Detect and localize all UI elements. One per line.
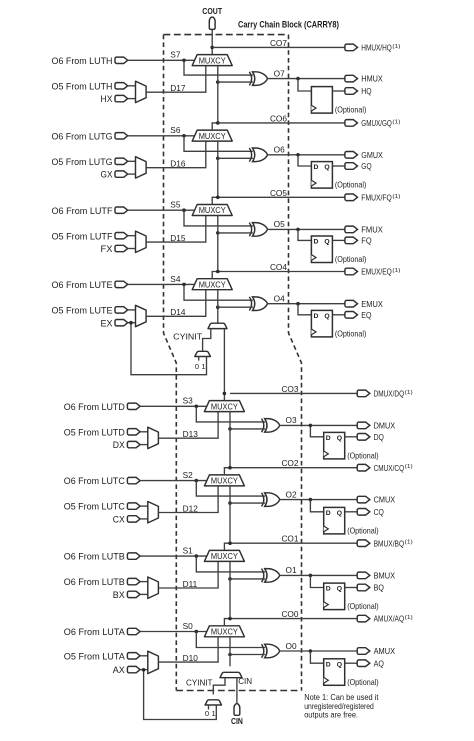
svg-text:MUXCY: MUXCY	[211, 628, 239, 637]
svg-text:CO2: CO2	[281, 458, 298, 468]
svg-text:S6: S6	[170, 125, 181, 135]
svg-text:FMUX/FQ: FMUX/FQ	[361, 192, 392, 202]
svg-text:(1): (1)	[392, 44, 400, 50]
svg-text:CIN: CIN	[238, 676, 252, 686]
svg-text:O6 From LUTB: O6 From LUTB	[64, 552, 125, 562]
svg-text:D: D	[314, 313, 319, 320]
svg-text:AQ: AQ	[374, 658, 384, 668]
svg-text:COUT: COUT	[202, 7, 222, 16]
svg-text:Q: Q	[324, 313, 329, 320]
svg-text:(1): (1)	[405, 615, 413, 621]
svg-text:CO3: CO3	[281, 384, 298, 394]
svg-text:O6 From LUTA: O6 From LUTA	[64, 627, 126, 637]
svg-text:GX: GX	[101, 170, 113, 180]
svg-text:S5: S5	[170, 200, 181, 210]
svg-text:HMUX: HMUX	[361, 74, 383, 84]
svg-text:1: 1	[212, 709, 216, 718]
svg-text:BX: BX	[113, 590, 125, 600]
svg-text:D10: D10	[183, 653, 199, 663]
svg-text:CO4: CO4	[270, 262, 287, 272]
svg-text:DMUX: DMUX	[374, 421, 396, 431]
svg-text:O5 From LUTD: O5 From LUTD	[64, 427, 125, 437]
svg-text:1: 1	[201, 362, 205, 371]
svg-text:EX: EX	[101, 318, 113, 328]
svg-text:EQ: EQ	[361, 310, 371, 320]
svg-text:CX: CX	[113, 515, 125, 525]
svg-text:(1): (1)	[405, 390, 413, 396]
svg-text:D: D	[326, 435, 331, 442]
svg-text:HMUX/HQ: HMUX/HQ	[361, 43, 392, 53]
svg-text:D11: D11	[183, 579, 198, 589]
svg-text:CO5: CO5	[270, 188, 287, 198]
svg-text:EMUX/EQ: EMUX/EQ	[361, 267, 392, 277]
svg-text:FQ: FQ	[361, 236, 371, 246]
svg-text:Q: Q	[324, 239, 329, 246]
svg-text:D17: D17	[170, 83, 186, 93]
svg-text:Q: Q	[337, 586, 342, 593]
svg-text:Q: Q	[337, 435, 342, 442]
svg-text:O5 From LUTE: O5 From LUTE	[52, 306, 113, 316]
svg-text:O6 From LUTC: O6 From LUTC	[64, 476, 125, 486]
svg-text:Q: Q	[337, 661, 342, 668]
svg-text:O6 From LUTE: O6 From LUTE	[52, 280, 113, 290]
svg-text:CMUX: CMUX	[374, 495, 396, 505]
svg-text:CO7: CO7	[270, 38, 287, 48]
svg-text:D13: D13	[183, 429, 199, 439]
svg-text:(Optional): (Optional)	[347, 677, 379, 687]
svg-text:Carry Chain Block (CARRY8): Carry Chain Block (CARRY8)	[238, 19, 339, 29]
svg-text:(Optional): (Optional)	[335, 254, 367, 264]
svg-text:CQ: CQ	[374, 507, 384, 517]
svg-text:BMUX: BMUX	[374, 571, 396, 581]
svg-text:AX: AX	[113, 665, 125, 675]
svg-text:DQ: DQ	[374, 432, 384, 442]
svg-text:D: D	[314, 239, 319, 246]
svg-text:(1): (1)	[392, 119, 400, 125]
svg-text:MUXCY: MUXCY	[199, 280, 227, 289]
svg-text:Note 1: Can be used it: Note 1: Can be used it	[304, 693, 379, 702]
svg-text:O7: O7	[274, 68, 285, 78]
svg-text:D14: D14	[170, 307, 186, 317]
svg-text:O3: O3	[286, 415, 297, 425]
svg-text:O5 From LUTF: O5 From LUTF	[52, 231, 113, 241]
svg-text:CO1: CO1	[281, 534, 298, 544]
svg-text:CMUX/CQ: CMUX/CQ	[374, 463, 405, 473]
svg-text:O6 From LUTG: O6 From LUTG	[52, 131, 113, 141]
svg-text:(Optional): (Optional)	[347, 601, 379, 611]
svg-text:S7: S7	[170, 50, 181, 60]
svg-text:CYINIT: CYINIT	[186, 677, 213, 687]
svg-text:DX: DX	[113, 440, 125, 450]
svg-text:0: 0	[195, 362, 199, 371]
svg-text:O5 From LUTC: O5 From LUTC	[64, 502, 125, 512]
svg-text:AMUX: AMUX	[374, 646, 396, 656]
svg-text:(Optional): (Optional)	[347, 525, 379, 535]
svg-text:outputs are free.: outputs are free.	[304, 710, 358, 719]
svg-text:D12: D12	[183, 503, 199, 513]
svg-text:GQ: GQ	[361, 161, 371, 171]
svg-text:Q: Q	[324, 164, 329, 171]
svg-text:EMUX: EMUX	[361, 299, 383, 309]
svg-text:D: D	[326, 586, 331, 593]
svg-text:O6: O6	[274, 145, 285, 155]
svg-text:MUXCY: MUXCY	[199, 206, 227, 215]
svg-text:Q: Q	[337, 510, 342, 517]
svg-text:O2: O2	[286, 489, 297, 499]
svg-text:O6 From LUTB: O6 From LUTB	[64, 577, 125, 587]
svg-text:D15: D15	[170, 233, 186, 243]
svg-text:MUXCY: MUXCY	[211, 402, 239, 411]
svg-text:HQ: HQ	[361, 86, 371, 96]
svg-text:BMUX/BQ: BMUX/BQ	[374, 538, 405, 548]
svg-text:O4: O4	[274, 294, 285, 304]
svg-text:(1): (1)	[405, 540, 413, 546]
svg-text:GMUX: GMUX	[361, 150, 383, 160]
svg-text:(Optional): (Optional)	[335, 105, 367, 115]
svg-text:MUXCY: MUXCY	[211, 477, 239, 486]
svg-text:DMUX/DQ: DMUX/DQ	[374, 389, 405, 399]
svg-text:(1): (1)	[405, 464, 413, 470]
svg-text:FMUX: FMUX	[361, 225, 383, 235]
svg-text:MUXCY: MUXCY	[211, 552, 239, 561]
svg-text:O5 From LUTH: O5 From LUTH	[52, 81, 113, 91]
svg-text:BQ: BQ	[374, 583, 384, 593]
svg-text:MUXCY: MUXCY	[199, 56, 227, 65]
svg-text:GMUX/GQ: GMUX/GQ	[361, 118, 392, 128]
svg-text:D16: D16	[170, 159, 186, 169]
svg-text:S4: S4	[170, 274, 181, 284]
svg-text:FX: FX	[101, 244, 113, 254]
svg-text:D: D	[314, 164, 319, 171]
svg-text:O6 From LUTF: O6 From LUTF	[52, 206, 113, 216]
svg-text:D: D	[326, 510, 331, 517]
svg-text:CO0: CO0	[281, 609, 298, 619]
svg-text:O5 From LUTG: O5 From LUTG	[52, 157, 113, 167]
svg-text:D: D	[326, 661, 331, 668]
svg-text:(Optional): (Optional)	[347, 450, 379, 460]
svg-text:(Optional): (Optional)	[335, 180, 367, 190]
svg-text:S2: S2	[183, 470, 194, 480]
svg-text:AMUX/AQ: AMUX/AQ	[374, 614, 405, 624]
svg-text:O6 From LUTH: O6 From LUTH	[52, 56, 113, 66]
svg-text:(1): (1)	[392, 268, 400, 274]
svg-text:HX: HX	[101, 94, 113, 104]
svg-text:O0: O0	[286, 641, 297, 651]
svg-text:CYINIT: CYINIT	[173, 332, 202, 342]
svg-text:CO6: CO6	[270, 113, 287, 123]
svg-text:0: 0	[205, 709, 209, 718]
svg-text:O6 From LUTD: O6 From LUTD	[64, 402, 125, 412]
svg-text:(Optional): (Optional)	[335, 328, 367, 338]
svg-text:MUXCY: MUXCY	[199, 132, 227, 141]
svg-text:S1: S1	[183, 546, 194, 556]
svg-text:O5 From LUTA: O5 From LUTA	[64, 651, 126, 661]
svg-text:S3: S3	[183, 396, 194, 406]
svg-text:S0: S0	[183, 621, 194, 631]
svg-text:O1: O1	[286, 565, 297, 575]
svg-text:O5: O5	[274, 219, 285, 229]
svg-text:(1): (1)	[392, 194, 400, 200]
svg-text:CIN: CIN	[231, 717, 243, 726]
